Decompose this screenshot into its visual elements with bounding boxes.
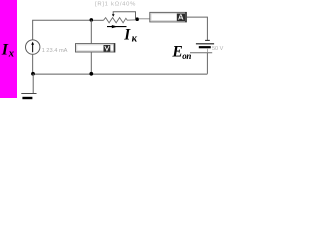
voltmeter V box <box>76 44 115 52</box>
voltmeter V marker square <box>104 45 111 52</box>
svg-text:23.4 mA: 23.4 mA <box>46 48 67 54</box>
svg-text:к: к <box>132 34 138 45</box>
svg-text:1: 1 <box>42 48 45 54</box>
wire top: junction to potentiometer <box>91 19 103 21</box>
node: top junction dot <box>90 18 94 22</box>
wire: junction to resistor R <box>139 18 151 20</box>
wire top-left: source top to corner <box>33 20 92 40</box>
wire: top junction down to voltmeter <box>90 20 92 43</box>
svg-text:оп: оп <box>182 51 191 61</box>
current arrow Iк <box>107 26 127 28</box>
magenta side panel <box>0 0 17 98</box>
potentiometer wiper arrowhead <box>112 14 115 17</box>
battery long bottom plate <box>190 52 212 54</box>
wire: resistor to top-right corner, down to battery <box>187 17 208 40</box>
svg-text:I: I <box>1 42 9 59</box>
resistor A marker square <box>177 14 185 22</box>
svg-text:50 V: 50 V <box>212 46 224 52</box>
svg-text:E: E <box>171 43 182 60</box>
resistor R box <box>150 12 187 22</box>
svg-text:[R]1 kΩ/40%: [R]1 kΩ/40% <box>95 1 136 7</box>
ground <box>32 74 34 94</box>
wire: source bottom to bottom wire <box>32 54 34 74</box>
potentiometer R1 zigzag <box>104 18 138 23</box>
node: bottom-middle junction dot <box>89 72 93 76</box>
battery long plate <box>196 43 214 45</box>
battery short top plate <box>205 39 210 41</box>
current source arrow <box>32 44 34 53</box>
battery inter-cell stub <box>206 48 208 53</box>
wire: voltmeter down to bottom junction <box>90 52 92 74</box>
node: bottom-left junction dot <box>31 72 35 76</box>
bottom wire <box>33 73 208 75</box>
node: right junction dot <box>135 17 139 21</box>
battery short thick plate <box>199 46 211 48</box>
svg-text:I: I <box>123 27 131 44</box>
potentiometer wiper arm <box>113 12 135 19</box>
svg-text:x: x <box>8 49 14 60</box>
current source Ix <box>26 40 40 54</box>
wire: battery to bottom-right corner <box>206 53 208 74</box>
